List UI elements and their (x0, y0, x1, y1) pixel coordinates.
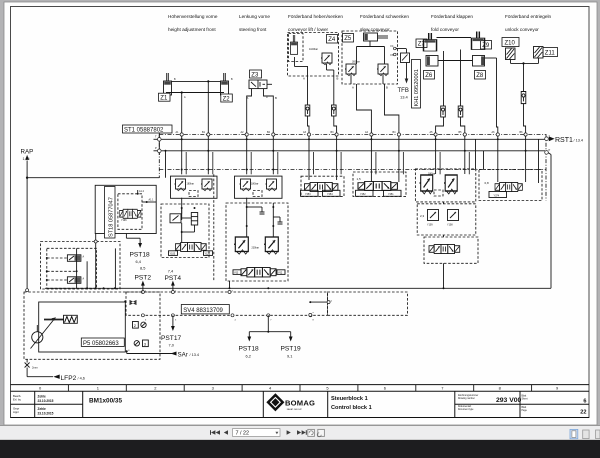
svg-text:Z2: Z2 (223, 96, 231, 102)
svg-text:7,0: 7,0 (169, 343, 175, 348)
svg-text:fold conveyor: fold conveyor (431, 27, 459, 32)
svg-text:Y105: Y105 (170, 253, 176, 256)
svg-text:2,3: 2,3 (420, 214, 425, 218)
svg-text:Y63: Y63 (234, 272, 239, 275)
svg-text:KH1 09520001: KH1 09520001 (414, 69, 420, 106)
svg-text:A: A (247, 96, 249, 100)
svg-text:Höhenverstellung vorne: Höhenverstellung vorne (168, 14, 218, 19)
svg-text:height adjustment front: height adjustment front (168, 27, 216, 32)
svg-text:A1.2: A1.2 (139, 190, 145, 193)
svg-text:Z4: Z4 (328, 37, 336, 43)
svg-text:300bar: 300bar (352, 61, 360, 64)
svg-text:Drawing number: Drawing number (458, 397, 475, 400)
svg-text:Page: Page (522, 410, 528, 412)
svg-text:Förderband heben/senken: Förderband heben/senken (288, 14, 343, 19)
svg-text:2mm: 2mm (32, 366, 38, 370)
svg-text:Y196: Y196 (121, 219, 127, 222)
svg-text:conveyor lift / lower: conveyor lift / lower (288, 27, 329, 32)
svg-text:1100bar: 1100bar (309, 48, 318, 51)
svg-text:Steuerblock 1: Steuerblock 1 (331, 396, 368, 402)
svg-text:Zehle: Zehle (38, 407, 47, 411)
svg-text:Z9: Z9 (482, 43, 490, 49)
svg-text:Document type: Document type (458, 408, 474, 411)
svg-text:23.10.2015: 23.10.2015 (38, 412, 54, 416)
svg-text:Zeichnungsnummer: Zeichnungsnummer (458, 394, 479, 397)
svg-text:/ 13.4: / 13.4 (190, 353, 200, 357)
svg-text:8,5: 8,5 (140, 266, 145, 271)
svg-text:6,4: 6,4 (136, 259, 142, 264)
svg-text:7,4: 7,4 (168, 268, 174, 273)
svg-text:Z5: Z5 (344, 36, 352, 42)
svg-text:Z3: Z3 (251, 72, 259, 78)
svg-text:ST18 05877047: ST18 05877047 (109, 197, 115, 237)
svg-text:B: B (275, 96, 277, 100)
svg-text:RAP: RAP (21, 149, 34, 156)
svg-text:Y109: Y109 (427, 224, 433, 227)
svg-text:PST19: PST19 (281, 345, 301, 352)
svg-text:Sheet: Sheet (522, 398, 528, 401)
svg-text:/ 13.4: / 13.4 (574, 139, 584, 143)
svg-text:Zehle: Zehle (38, 395, 47, 399)
svg-text:Appr: Appr (13, 410, 19, 414)
svg-text:230bar: 230bar (252, 247, 260, 250)
svg-text:steering front: steering front (239, 27, 267, 32)
svg-text:ST1 05887802: ST1 05887802 (124, 128, 164, 134)
svg-text:Dokumentart: Dokumentart (458, 405, 472, 408)
svg-text:B: B (386, 86, 388, 90)
svg-text:180bar: 180bar (251, 183, 259, 186)
svg-text:A1.1: A1.1 (149, 199, 155, 202)
svg-text:22: 22 (580, 410, 586, 416)
svg-text:Förderband entriegeln: Förderband entriegeln (505, 14, 552, 19)
svg-text:6: 6 (583, 399, 586, 405)
svg-text:/ 4,6: / 4,6 (78, 377, 85, 381)
svg-text:A: A (352, 86, 354, 90)
svg-text:Y252: Y252 (360, 193, 366, 196)
svg-text:P5 05802663: P5 05802663 (83, 341, 119, 347)
svg-text:Control block 1: Control block 1 (331, 405, 372, 411)
svg-text:13.4: 13.4 (400, 95, 409, 100)
svg-text:SV4 88313709: SV4 88313709 (183, 308, 223, 314)
svg-text:7 / 22: 7 / 22 (236, 431, 250, 437)
svg-text:Y253: Y253 (305, 193, 311, 196)
svg-text:Z6: Z6 (425, 73, 433, 79)
svg-text:9,1: 9,1 (287, 353, 292, 358)
svg-text:PST17: PST17 (161, 335, 181, 342)
svg-text:Erl. by: Erl. by (13, 398, 22, 402)
svg-text:Y108: Y108 (447, 224, 453, 227)
svg-text:unlock conveyor: unlock conveyor (505, 27, 539, 32)
svg-text:0,8: 0,8 (485, 181, 490, 185)
svg-text:BOMAG: BOMAG (285, 398, 315, 407)
svg-text:Y251: Y251 (388, 193, 394, 196)
svg-text:Förderband schwenken: Förderband schwenken (360, 14, 409, 19)
svg-text:B: B (337, 77, 339, 81)
svg-text:180bar: 180bar (187, 183, 195, 186)
svg-text:Förderband klappen: Förderband klappen (431, 14, 473, 19)
svg-text:Y254: Y254 (327, 193, 333, 196)
svg-text:Y374: Y374 (494, 194, 500, 197)
svg-text:SAr: SAr (178, 351, 188, 358)
svg-text:Lenkung vorne: Lenkung vorne (239, 14, 270, 19)
svg-text:BM1x00/35: BM1x00/35 (89, 398, 122, 405)
svg-text:PST18: PST18 (239, 345, 259, 352)
svg-text:Z1: Z1 (160, 96, 168, 102)
svg-text:Z10: Z10 (505, 41, 516, 47)
svg-text:Z11: Z11 (545, 51, 556, 57)
svg-text:Y120: Y120 (205, 253, 211, 256)
svg-text:1,5: 1,5 (357, 177, 362, 181)
svg-text:LFP2: LFP2 (61, 375, 77, 382)
svg-text:PST18: PST18 (130, 251, 150, 258)
svg-text:23.10.2015: 23.10.2015 (38, 399, 54, 403)
svg-text:Blatt: Blatt (522, 395, 527, 398)
svg-text:Blatt: Blatt (522, 406, 527, 409)
svg-text:293 V00: 293 V00 (496, 397, 522, 404)
svg-text:P: P (549, 148, 551, 152)
svg-text:FAYAT GROUP: FAYAT GROUP (287, 408, 303, 411)
svg-text:TFB: TFB (398, 88, 409, 94)
svg-text:P: P (155, 146, 157, 150)
svg-text:A: A (303, 77, 305, 81)
svg-text:RST1: RST1 (555, 137, 573, 144)
svg-text:Y62: Y62 (278, 272, 283, 275)
svg-text:Z8: Z8 (476, 73, 484, 79)
svg-text:6,2: 6,2 (246, 353, 251, 358)
